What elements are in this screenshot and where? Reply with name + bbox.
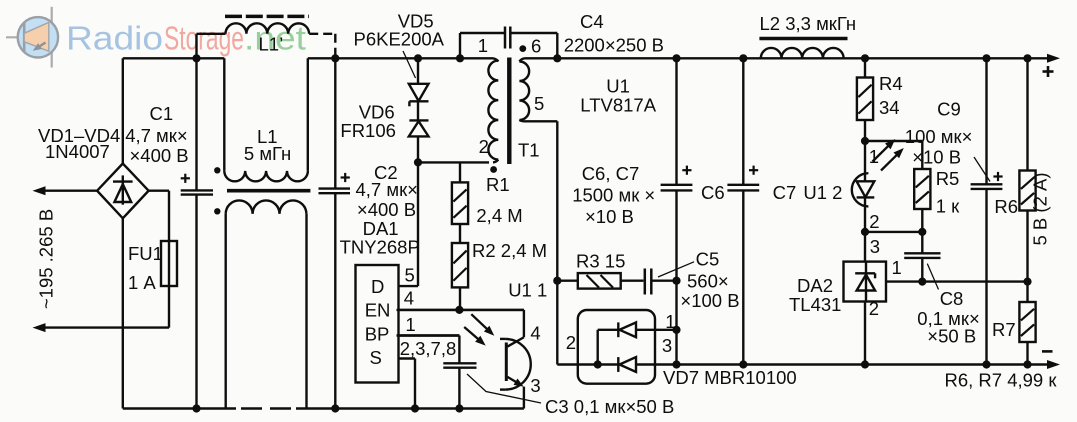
- svg-text:2: 2: [566, 332, 576, 353]
- svg-text:6: 6: [531, 36, 541, 57]
- svg-text:Radio: Radio: [66, 19, 163, 56]
- svg-text:C1: C1: [150, 103, 174, 124]
- svg-text:1500 мк ×: 1500 мк ×: [572, 185, 655, 206]
- svg-text:1: 1: [869, 146, 879, 167]
- svg-text:4,7 мк×: 4,7 мк×: [125, 125, 187, 146]
- svg-text:5 мГн: 5 мГн: [244, 143, 291, 164]
- svg-text:C3 0,1 мк×50 В: C3 0,1 мк×50 В: [545, 396, 674, 417]
- svg-text:P6KE200A: P6KE200A: [354, 29, 445, 50]
- svg-text:1: 1: [405, 314, 415, 335]
- svg-text:C6, C7: C6, C7: [582, 163, 640, 184]
- svg-text:S: S: [370, 347, 382, 368]
- svg-text:R6, R7 4,99 к: R6, R7 4,99 к: [945, 370, 1058, 391]
- svg-text:U1: U1: [606, 76, 630, 97]
- svg-text:U1 2: U1 2: [803, 182, 842, 203]
- svg-text:2200×250 В: 2200×250 В: [564, 35, 664, 56]
- svg-text:×100 В: ×100 В: [680, 290, 739, 311]
- svg-text:L1’: L1’: [259, 34, 284, 55]
- svg-text:×400 В: ×400 В: [357, 199, 416, 220]
- svg-text:R6: R6: [994, 196, 1018, 217]
- svg-text:C7: C7: [773, 182, 797, 203]
- svg-text:C6: C6: [701, 182, 725, 203]
- svg-text:×10 В: ×10 В: [912, 147, 961, 168]
- svg-text:5: 5: [534, 93, 544, 114]
- svg-text:T1: T1: [518, 140, 540, 161]
- svg-text:4: 4: [530, 323, 540, 344]
- svg-text:1 А: 1 А: [128, 272, 156, 293]
- svg-text:×400 В: ×400 В: [130, 145, 189, 166]
- svg-text:2: 2: [479, 136, 489, 157]
- svg-text:FR106: FR106: [340, 120, 396, 141]
- svg-text:4: 4: [404, 288, 414, 309]
- svg-text:5: 5: [405, 265, 415, 286]
- svg-text:560×: 560×: [687, 271, 729, 292]
- svg-text:R1: R1: [486, 174, 510, 195]
- svg-text:4,7 мк×: 4,7 мк×: [356, 179, 418, 200]
- svg-text:C9: C9: [937, 99, 961, 120]
- svg-text:C4: C4: [580, 11, 604, 32]
- svg-text:1: 1: [892, 257, 902, 278]
- svg-text:×10 В: ×10 В: [585, 206, 634, 227]
- svg-text:BP: BP: [365, 324, 390, 345]
- svg-text:U1 1: U1 1: [508, 280, 547, 301]
- svg-text:3: 3: [530, 375, 540, 396]
- svg-text:~195 .265 В: ~195 .265 В: [36, 209, 57, 309]
- svg-text:2,4 М: 2,4 М: [476, 205, 522, 226]
- svg-text:L2 3,3 мкГн: L2 3,3 мкГн: [760, 13, 857, 34]
- svg-text:1: 1: [665, 311, 675, 332]
- svg-text:34: 34: [879, 97, 900, 118]
- svg-text:FU1: FU1: [128, 243, 163, 264]
- svg-text:1 к: 1 к: [936, 196, 960, 217]
- svg-text:TL431: TL431: [789, 294, 841, 315]
- svg-text:5 В (2 А): 5 В (2 А): [1030, 173, 1051, 246]
- svg-text:VD7 MBR10100: VD7 MBR10100: [663, 367, 797, 388]
- svg-text:2: 2: [869, 298, 879, 319]
- svg-text:R5: R5: [936, 168, 960, 189]
- svg-text:R7: R7: [992, 319, 1016, 340]
- svg-text:2,3,7,8: 2,3,7,8: [400, 338, 457, 359]
- svg-text:DA2: DA2: [797, 275, 833, 296]
- svg-text:C8: C8: [940, 288, 964, 309]
- svg-text:R4: R4: [879, 73, 903, 94]
- svg-text:×50 В: ×50 В: [927, 326, 976, 347]
- svg-text:C5: C5: [696, 248, 720, 269]
- svg-text:R3 15: R3 15: [576, 251, 625, 272]
- svg-text:EN: EN: [365, 300, 391, 321]
- svg-text:LTV817A: LTV817A: [580, 95, 656, 116]
- svg-text:2: 2: [869, 211, 879, 232]
- svg-text:100 мк×: 100 мк×: [905, 126, 973, 147]
- svg-text:R2 2,4 М: R2 2,4 М: [472, 240, 547, 261]
- svg-text:1N4007: 1N4007: [45, 141, 110, 162]
- svg-text:D: D: [371, 276, 384, 297]
- svg-text:1: 1: [478, 35, 488, 56]
- svg-text:3: 3: [870, 236, 880, 257]
- svg-text:TNY268P: TNY268P: [340, 237, 420, 258]
- svg-text:3: 3: [662, 335, 672, 356]
